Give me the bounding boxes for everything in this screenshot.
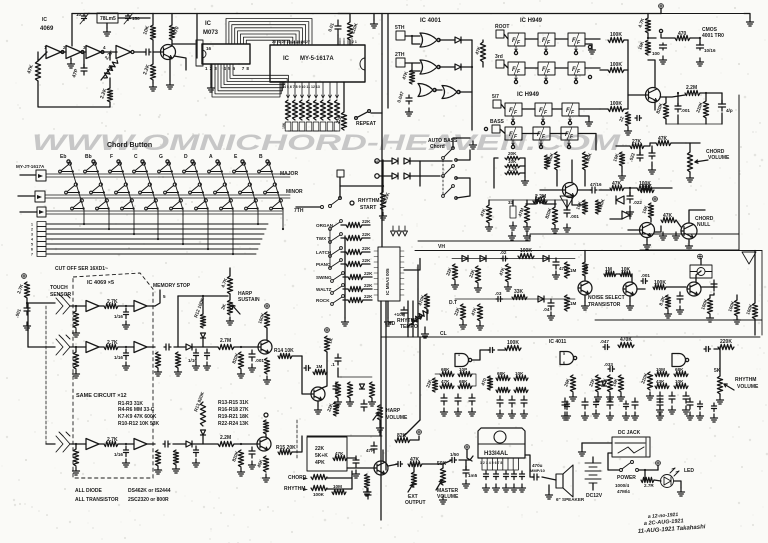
arrow FF row2 3rd outpin 1: [515, 78, 517, 81]
ground 22a: [625, 127, 632, 135]
svg-text:22K: 22K: [468, 268, 476, 278]
transistor Q1 buffer: [161, 45, 176, 60]
wire ib2: [322, 372, 327, 388]
IC U8 mounting hole: [494, 431, 506, 443]
capacitor amp 5: [520, 471, 525, 480]
ring rs b: [350, 201, 354, 205]
FF row3 5/7 stage 2: [535, 103, 552, 116]
resistor 100K ns3: [653, 284, 666, 289]
connector box row2: [35, 191, 45, 202]
wire Q1 emitter: [169, 58, 171, 81]
ground 10K ur: [619, 172, 626, 180]
resistor mode 2: [346, 235, 362, 240]
capacitor .001 harp: [24, 304, 30, 315]
pin stub U3 top 1: [273, 41, 275, 45]
junction sup: [647, 37, 649, 39]
wire hf dn: [629, 188, 631, 196]
wire ab sw3: [456, 178, 470, 198]
junction col 4: [157, 238, 159, 240]
ground amp 5: [519, 484, 526, 492]
switch chord 7th 5: [170, 199, 183, 210]
pin stub U3 top 3: [280, 41, 282, 45]
ground cap row1: [123, 321, 130, 329]
wire FF row3 5/7 outpin 2: [542, 116, 544, 122]
wire mx b+: [410, 436, 419, 440]
resistor 220K: [347, 22, 352, 40]
wire FF row3 5/7 out right: [579, 108, 600, 110]
ground d1c: [469, 408, 476, 416]
bus note line 7: [46, 253, 256, 255]
wire divider loop top 1: [226, 19, 312, 45]
ground dt2: [477, 322, 484, 330]
resistor 8.2K ns: [665, 295, 670, 309]
resistor 100K far right: [752, 303, 757, 319]
ground q4: [644, 241, 651, 249]
FF row3 5/7 divider: [541, 103, 546, 116]
wire stub major 5: [160, 171, 171, 173]
switch chord major 5: [158, 162, 171, 173]
FF row1 ROOT out pin 1: [514, 51, 517, 54]
junction major 8: [246, 170, 248, 172]
wire chord col diag 3: [120, 163, 134, 210]
svg-text:47K: 47K: [401, 70, 409, 80]
bus major b: [46, 176, 290, 178]
svg-text:.1: .1: [331, 362, 335, 367]
resistor 33K dt: [512, 294, 527, 299]
ground under crystal: [104, 28, 111, 36]
svg-text:RHYTHM: RHYTHM: [735, 377, 756, 383]
svg-text:G: G: [159, 154, 163, 160]
resistor 47K dvb: [333, 455, 347, 460]
wire ns5: [637, 288, 645, 290]
svg-text:1/16: 1/16: [114, 452, 123, 457]
capacitor ur2: [649, 150, 655, 159]
wire sup ring: [647, 33, 649, 38]
capacitor 470 vh: [553, 258, 559, 269]
pin stub U3 bottom 2: [294, 82, 296, 98]
resistor 10K co: [648, 203, 653, 218]
transistor Q9 preamp: [374, 461, 388, 475]
switch chord major 4: [133, 162, 146, 173]
svg-text:2TH: 2TH: [395, 52, 405, 58]
wire sw out: [639, 469, 658, 471]
long wire mixer: [307, 435, 382, 437]
svg-text:100K: 100K: [520, 248, 532, 254]
IC U3 notch: [360, 58, 365, 70]
ground 82K r3: [155, 466, 162, 474]
ground d2b: [509, 410, 516, 418]
svg-text:47K: 47K: [479, 207, 487, 217]
wire sus left: [177, 296, 179, 347]
resistor 47M hc: [524, 205, 529, 223]
resistor 10K bias: [150, 25, 155, 40]
ground q9b: [364, 488, 371, 496]
wire d1 net: [435, 373, 440, 375]
resistor 10K sup2: [645, 40, 650, 55]
wire d9: [610, 218, 622, 220]
capacitor d1c: [469, 394, 475, 405]
wire dv a: [337, 368, 339, 377]
svg-text:2.2K: 2.2K: [382, 191, 391, 203]
diode D1: [455, 37, 461, 43]
resistor rsel 3: [348, 297, 363, 302]
wire u6 out: [404, 259, 420, 271]
wire mode out 1: [362, 224, 370, 226]
resistor 2.2K emitter: [150, 64, 155, 80]
ground ur: [649, 166, 656, 174]
svg-text:2: 2: [31, 228, 33, 232]
wire q r2 coll: [266, 328, 268, 340]
wire rs left: [296, 206, 320, 208]
trimmer wiper: [101, 66, 112, 80]
transistor Q row2: [258, 340, 272, 354]
resistor 820K row2: [238, 352, 243, 369]
border noise block bottom: [595, 319, 762, 321]
wire harp in: [26, 298, 28, 308]
wire tempo gnd: [424, 327, 426, 330]
ground d3a: [657, 406, 664, 414]
junction 7th 6: [207, 207, 209, 209]
ground harp in: [24, 322, 31, 330]
wire divider loop bottom 7: [230, 64, 287, 82]
crystal X1 781.m5: [97, 13, 118, 23]
resistor 470K d2: [618, 342, 634, 347]
FF row1 ROOT divider: [574, 33, 579, 46]
value box 8: [334, 122, 340, 131]
wire chord col diag 8: [244, 163, 258, 210]
inverter U1C: [86, 46, 104, 59]
svg-text:1/50: 1/50: [450, 452, 459, 457]
IC U2 M073 body: [202, 44, 250, 64]
junction 5th: [411, 35, 413, 37]
diode D row3: [201, 430, 206, 435]
ground misc 626: [623, 412, 630, 420]
pin stub U3 top 4: [283, 41, 285, 45]
resistor 22a: [625, 112, 630, 126]
svg-text:68K: 68K: [441, 367, 450, 372]
resistor 100K q3: [595, 200, 600, 214]
connector stack box 5: [37, 242, 46, 247]
svg-text:HARP: HARP: [386, 408, 401, 414]
pin U8 7: [512, 458, 514, 470]
switch rhythm WALTZ: [331, 284, 345, 295]
resistor 47K out: [408, 461, 422, 466]
ground hf: [627, 208, 634, 216]
svg-text:VOLUME: VOLUME: [386, 415, 408, 421]
svg-text:6: 6: [563, 361, 565, 365]
ground d1b: [455, 408, 462, 416]
svg-text:F: F: [571, 110, 575, 116]
svg-text:5: 5: [163, 294, 166, 299]
svg-text:47M: 47M: [517, 207, 525, 217]
FF row2 3rd divider: [544, 62, 549, 75]
svg-text:SENSOR: SENSOR: [50, 292, 72, 298]
ground chordvol: [687, 174, 694, 182]
arrow FF row3 5/7 outpin 1: [512, 119, 514, 122]
ground st: [522, 177, 529, 185]
ground out 2: [582, 412, 589, 420]
wire inv2 gnd: [70, 58, 72, 60]
ground 1m5: [463, 480, 470, 488]
capacitor 47/16: [590, 187, 597, 193]
resistor 22K d1: [432, 378, 437, 392]
resistor 100K row2: [608, 67, 624, 72]
arrow glyph 1: [391, 231, 396, 236]
wire mix res dn: [482, 62, 484, 67]
ground ns b: [677, 306, 684, 314]
touch sensor row3: [56, 432, 70, 452]
resistor 220K rv: [718, 344, 734, 349]
ground amp 3: [503, 484, 510, 492]
wire st left: [494, 158, 498, 188]
DC jack J1: [612, 437, 650, 457]
ground ns a: [665, 310, 672, 318]
wire rv3: [719, 394, 721, 396]
svg-text:220K: 220K: [695, 101, 704, 114]
svg-text:1M: 1M: [570, 301, 577, 306]
svg-text:4 5 6 7 8 9 10 11 12 13: 4 5 6 7 8 9 10 11 12 13: [284, 85, 320, 89]
resistor 10K ur: [619, 152, 624, 166]
wire q5 coll: [689, 210, 705, 223]
svg-text:100K: 100K: [641, 183, 653, 188]
bus note line 1: [46, 223, 268, 225]
wire FF row1 ROOT outpin 1: [515, 46, 517, 52]
resistor 10K bank: [618, 375, 623, 392]
resistor 50K master: [440, 468, 445, 485]
svg-text:22K: 22K: [362, 219, 371, 224]
resistor bank R7: [327, 100, 332, 120]
wire flt dn3: [705, 118, 707, 124]
ground top right corner: [747, 18, 754, 26]
wire FF row3 5/7 outpin 1: [512, 116, 514, 122]
wire inv1-2: [62, 51, 66, 53]
svg-text:220K: 220K: [720, 339, 732, 345]
junction minor 4: [152, 191, 154, 193]
wire sw in: [608, 453, 619, 470]
pin U8 5: [502, 458, 504, 470]
wire trim top: [109, 52, 111, 60]
bus note line 4: [46, 238, 262, 240]
FF row3 5/7 stage 3: [562, 103, 579, 116]
svg-text:47K: 47K: [498, 266, 506, 276]
capacitor d1a: [441, 394, 447, 405]
svg-text:ALL TRANSISTOR: ALL TRANSISTOR: [75, 497, 119, 503]
wire sus node: [178, 295, 228, 297]
inverter B row3: [134, 439, 147, 450]
ground 1M row2: [73, 370, 80, 378]
svg-text:.022: .022: [633, 200, 642, 205]
svg-text:OUTPUT: OUTPUT: [405, 500, 426, 506]
ground out 5: [657, 412, 664, 420]
svg-text:2.2M: 2.2M: [686, 85, 697, 91]
wire row3 c: [234, 443, 257, 445]
wire gate bus: [471, 40, 473, 130]
wire q3 base: [540, 189, 562, 191]
wire stub minor 4: [141, 192, 153, 194]
wiper tempo: [407, 316, 422, 327]
ground misc 567: [564, 412, 571, 420]
resistor mix 47K: [480, 42, 485, 62]
svg-text:470K: 470K: [620, 337, 632, 343]
wire sus mid: [229, 294, 231, 300]
svg-text:SWING: SWING: [316, 275, 332, 280]
capacitor amp 3: [504, 471, 509, 480]
wire U3 top r2: [343, 38, 345, 41]
arrow glyph 2: [397, 231, 402, 236]
svg-text:2SC2320 or 800R: 2SC2320 or 800R: [128, 497, 169, 503]
wire res-inv row3: [118, 443, 134, 445]
IC U3 MY-5-1617A body: [270, 45, 365, 82]
ground vh3: [505, 283, 512, 291]
junction 7th 1: [83, 207, 85, 209]
arrow FF row1 ROOT outpin 2: [545, 49, 547, 52]
wire e-res top: [152, 52, 154, 64]
ground speaker: [546, 491, 553, 499]
wire stub major 9: [260, 171, 271, 173]
wire harp node: [27, 302, 55, 304]
ground misc 714: [711, 414, 718, 422]
resistor bank R1: [285, 100, 290, 120]
wire d2 in: [489, 376, 491, 390]
wire hv up: [379, 430, 381, 436]
switch chord minor 2: [90, 183, 103, 194]
svg-text:5: 5: [563, 352, 565, 356]
FF row3 5/7 out pin 3: [568, 121, 571, 124]
capacitor d3a: [657, 392, 663, 403]
wire jack left: [582, 442, 612, 444]
wire q8 up: [696, 271, 701, 282]
wire hv: [379, 420, 381, 424]
arrow U3 pin 1: [287, 95, 290, 98]
connector stack box 6: [37, 247, 46, 252]
ground dv2: [347, 398, 354, 406]
resistor 4.7K st3: [505, 171, 520, 174]
ground LED: [678, 488, 685, 496]
wiper harp sustain: [232, 305, 240, 314]
value box 5: [313, 122, 319, 131]
wire spk gnd: [548, 485, 550, 491]
resistor 47K d2c: [496, 387, 510, 392]
NOR gate U4B: [420, 60, 440, 74]
wire ns7: [701, 284, 714, 287]
junction major 7: [221, 170, 223, 172]
wire q4 coll: [650, 218, 652, 222]
resistor 100K row3: [608, 106, 624, 111]
FF row1 ROOT out pin 2: [544, 51, 547, 54]
wire st3: [520, 172, 525, 174]
svg-text:8: 8: [246, 66, 249, 71]
wire ib: [326, 352, 328, 372]
wire 1M row2: [75, 347, 77, 352]
connector box row3: [37, 207, 46, 217]
resistor 47K dt: [477, 304, 482, 321]
pin U6 left 9: [374, 294, 378, 296]
wire inv-res row3: [99, 443, 104, 445]
FF row2 3rd out pin 2: [544, 80, 547, 83]
switch chord major 6: [183, 162, 196, 173]
wire hc3: [526, 200, 528, 205]
ground amp 1: [483, 484, 490, 492]
transistor Q2 mixer: [646, 88, 661, 103]
resistor 50K chordvol: [687, 152, 692, 172]
wire d7-d8 path: [545, 203, 556, 205]
pin U8 4: [497, 458, 499, 470]
diode D6: [404, 173, 410, 179]
wire FF row1 ROOT link 1: [525, 38, 538, 40]
svg-text:IC 4011: IC 4011: [549, 339, 566, 345]
arrow FF row3 5/7 outpin 2: [542, 119, 544, 122]
svg-text:MINOR: MINOR: [286, 189, 303, 195]
svg-text:.001: .001: [570, 214, 579, 219]
svg-text:22K: 22K: [362, 258, 371, 263]
input box 2TH: [396, 58, 405, 67]
power node bus250: [698, 254, 703, 259]
svg-text:22K: 22K: [364, 283, 373, 288]
capacitor .01 ib2: [333, 382, 339, 393]
wire mix in2: [327, 478, 352, 489]
wire urg: [651, 162, 653, 166]
wire sensor out row1: [70, 305, 86, 307]
wire divider loop top 2: [229, 22, 309, 44]
ground 820K r3: [238, 468, 245, 476]
transistor Q ib: [311, 387, 325, 401]
svg-text:10K: 10K: [508, 159, 517, 164]
diode D7: [536, 196, 544, 204]
ground jack: [579, 448, 586, 456]
svg-text:C: C: [134, 154, 138, 160]
switch REPEAT: [355, 110, 371, 120]
svg-text:IC 4069 ×5: IC 4069 ×5: [87, 280, 114, 286]
wire 470 top: [171, 14, 173, 26]
pin U6 left 8: [374, 289, 378, 291]
wire varistor up: [700, 259, 702, 266]
svg-text:F: F: [544, 110, 548, 116]
resistor bank R5: [313, 100, 318, 120]
ground .001 r3: [249, 461, 256, 469]
wire chord col drop 7: [232, 210, 234, 254]
wire q r3 coll: [265, 434, 267, 437]
junction in row1: [75, 305, 77, 307]
svg-text:47K: 47K: [26, 64, 35, 75]
wire conn1 lead: [20, 174, 36, 176]
resistor out r2: [278, 353, 292, 358]
capacitor .001 hc: [564, 206, 570, 217]
wire d1 a: [472, 350, 490, 360]
switch chord 7th 6: [195, 199, 208, 210]
ground out 6: [687, 412, 694, 420]
wire row2 lead: [600, 69, 608, 71]
wire U3 top r1: [339, 38, 341, 41]
resistor 2.7K row1: [104, 303, 118, 308]
svg-text:2.7K: 2.7K: [107, 299, 118, 305]
resistor 1M row2: [73, 352, 78, 369]
resistor 68K d3: [674, 371, 688, 376]
pot rhythm tempo: [410, 310, 428, 325]
ground rv: [717, 396, 724, 404]
pin stub U3 top 2: [276, 41, 278, 45]
ground c10: [697, 58, 704, 66]
ground q r2: [264, 376, 271, 384]
svg-text:10/16: 10/16: [704, 48, 716, 53]
wire 47K to q5: [676, 220, 681, 227]
wire crystal gnd: [106, 23, 108, 28]
value box 7: [327, 122, 333, 131]
ground rsel bus: [342, 318, 349, 326]
diode d2: [602, 381, 607, 386]
FF row2 3rd stage 1: [508, 62, 525, 75]
svg-text:Chord: Chord: [430, 144, 445, 150]
wire divider loop bottom 3: [218, 64, 282, 91]
